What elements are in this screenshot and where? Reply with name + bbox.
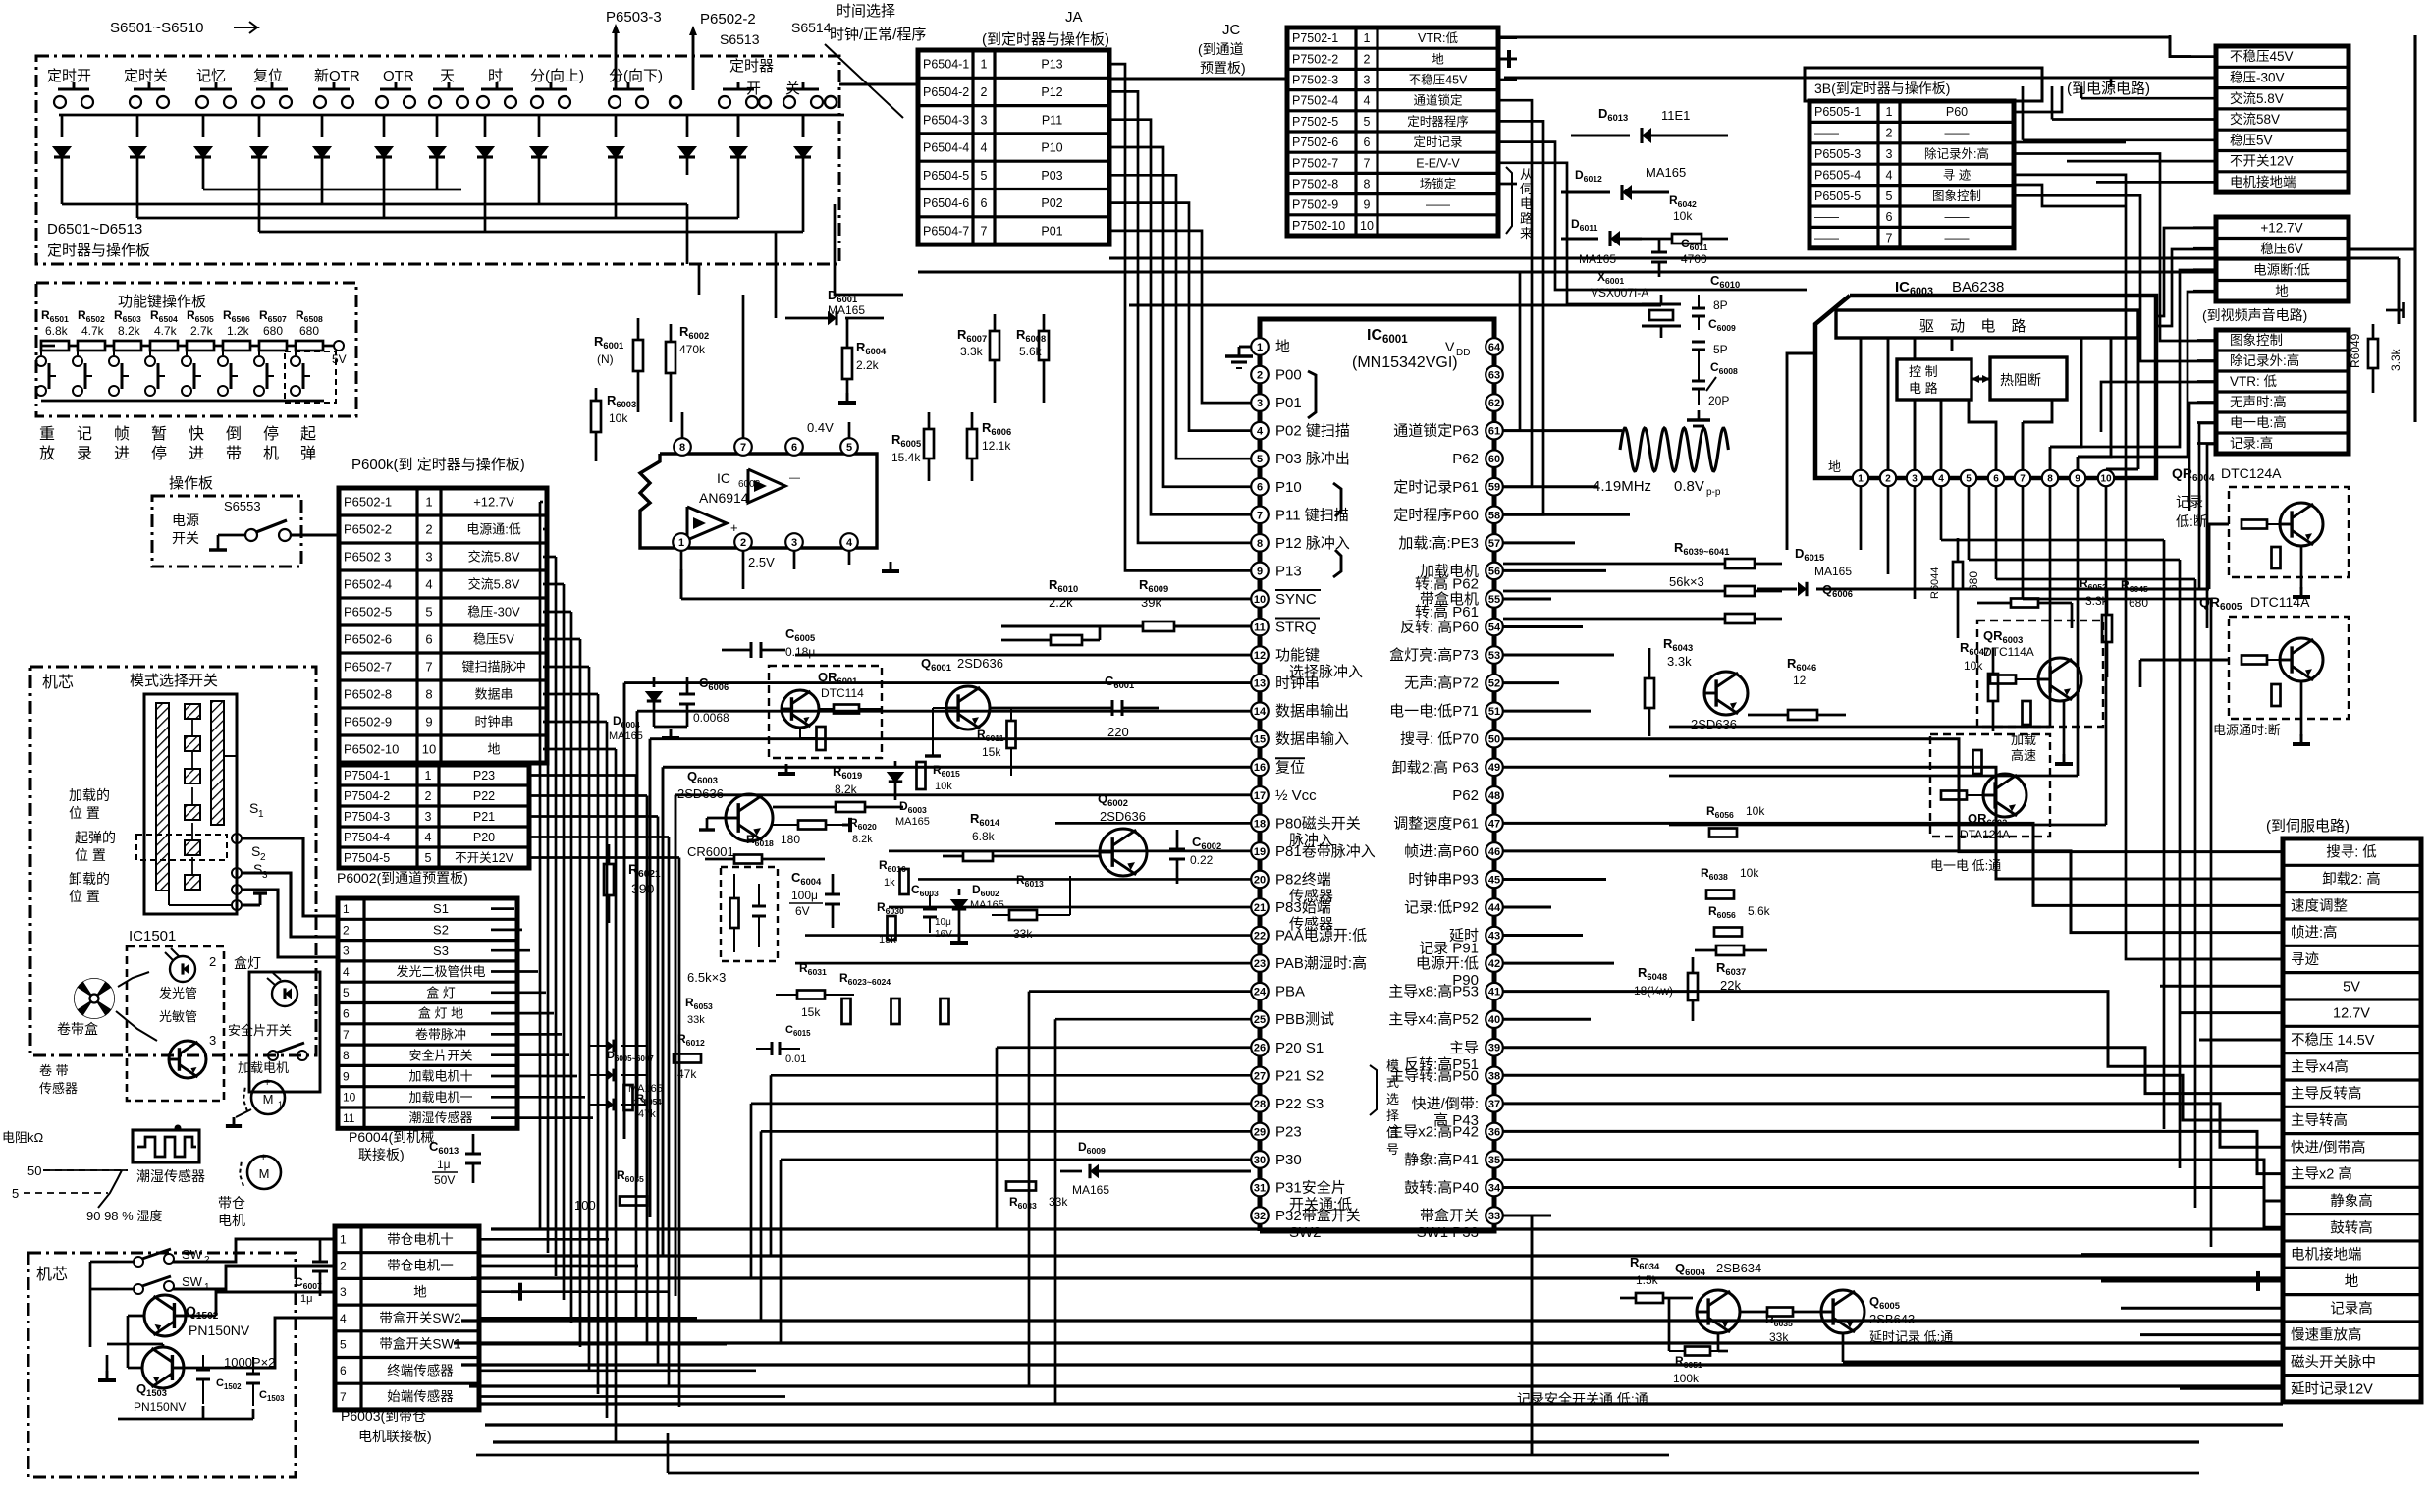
diode D6513 [802, 115, 805, 137]
svg-text:43: 43 [1488, 931, 1500, 943]
svg-text:P6502-5: P6502-5 [344, 605, 392, 620]
svg-text:主导x4:高P52: 主导x4:高P52 [1388, 1011, 1479, 1028]
svg-text:2SD636: 2SD636 [957, 656, 1003, 671]
svg-text:11E1: 11E1 [1661, 108, 1690, 123]
svg-text:39: 39 [1488, 1043, 1500, 1054]
wires right vertical bundle [2163, 854, 2166, 1129]
svg-text:P23: P23 [473, 769, 495, 783]
svg-text:记录 P91: 记录 P91 [1419, 941, 1479, 957]
svg-text:11: 11 [1254, 621, 1266, 633]
svg-text:2.2k: 2.2k [856, 358, 880, 372]
svg-text:电一电:低P71: 电一电:低P71 [1389, 703, 1479, 720]
svg-text:交流58V: 交流58V [2230, 111, 2280, 127]
svg-text:680: 680 [263, 324, 283, 338]
svg-text:220: 220 [1107, 725, 1129, 739]
pin 21 P83始端 [1251, 898, 1269, 916]
svg-text:定时器与操作板: 定时器与操作板 [47, 242, 150, 259]
wire matrix verticals to box bottom [775, 232, 778, 318]
svg-text:1: 1 [425, 495, 432, 510]
svg-text:(到伺服电路): (到伺服电路) [2266, 818, 2350, 835]
svg-text:进: 进 [114, 445, 130, 462]
svg-text:高速: 高速 [2011, 748, 2036, 763]
svg-text:54: 54 [1488, 621, 1501, 633]
svg-text:快进/倒带高: 快进/倒带高 [2291, 1139, 2366, 1156]
svg-text:反转: 高P60: 反转: 高P60 [1400, 620, 1479, 636]
op-amp A [748, 469, 785, 503]
pin 55 带盒电机 [1486, 590, 1503, 608]
svg-text:PAB潮湿时:高: PAB潮湿时:高 [1275, 955, 1367, 972]
svg-text:除记录外:高: 除记录外:高 [2230, 352, 2299, 368]
svg-text:不稳压 14.5V: 不稳压 14.5V [2291, 1032, 2375, 1049]
pin 56 加载电机 [1486, 563, 1503, 580]
svg-text:40: 40 [1488, 1014, 1500, 1026]
svg-text:3.3k: 3.3k [960, 345, 984, 358]
svg-text:记: 记 [77, 425, 92, 443]
svg-text:DTC124A: DTC124A [2221, 465, 2282, 481]
svg-text:5: 5 [12, 1186, 19, 1201]
svg-text:JA: JA [1065, 9, 1083, 26]
svg-text:P7502-7: P7502-7 [1292, 156, 1338, 170]
svg-text:P6004(到机械: P6004(到机械 [349, 1129, 434, 1145]
svg-text:P6505-3: P6505-3 [1814, 147, 1861, 161]
svg-text:放: 放 [39, 445, 55, 462]
connector table P7504 [339, 765, 529, 868]
svg-text:SYNC: SYNC [1275, 591, 1317, 608]
svg-text:DD: DD [1456, 348, 1470, 358]
svg-text:定时器: 定时器 [729, 58, 774, 75]
svg-text:不开关12V: 不开关12V [455, 851, 513, 865]
svg-text:5V: 5V [332, 352, 347, 366]
svg-text:模: 模 [1386, 1058, 1399, 1073]
svg-text:2: 2 [1364, 52, 1371, 66]
svg-text:3.3k: 3.3k [2389, 348, 2403, 371]
svg-text:卷带脉冲: 卷带脉冲 [415, 1027, 466, 1042]
svg-text:交流5.8V: 交流5.8V [468, 577, 520, 592]
svg-text:VTR: 低: VTR: 低 [2230, 374, 2278, 389]
svg-text:1.2k: 1.2k [227, 324, 250, 338]
svg-text:p-p: p-p [1706, 487, 1721, 498]
svg-text:2.2k: 2.2k [1049, 595, 1073, 610]
svg-text:DTA124A: DTA124A [1960, 828, 2010, 841]
svg-text:29: 29 [1254, 1126, 1266, 1138]
svg-text:P20 S1: P20 S1 [1275, 1040, 1324, 1056]
svg-text:7: 7 [1886, 232, 1893, 245]
svg-text:STRQ: STRQ [1275, 620, 1317, 636]
wire top bus under JC [1109, 256, 2399, 259]
svg-text:P7504-3: P7504-3 [344, 810, 390, 824]
svg-text:1: 1 [204, 1282, 210, 1293]
svg-text:3: 3 [1886, 147, 1893, 161]
svg-text:3: 3 [981, 113, 988, 127]
svg-text:4: 4 [425, 577, 432, 592]
svg-text:主导反转高: 主导反转高 [2291, 1086, 2362, 1103]
svg-text:3.3k: 3.3k [1667, 654, 1692, 669]
svg-text:定时开: 定时开 [47, 68, 91, 84]
pin 60 P62 [1486, 450, 1503, 467]
wire above IC top [1129, 304, 1661, 307]
table video audio outputs [2216, 330, 2349, 454]
wire JB row3 to video table [2014, 154, 2216, 342]
svg-text:光敏管: 光敏管 [159, 1009, 197, 1024]
pin 30 P30 [1251, 1151, 1269, 1168]
svg-text:—: — [789, 472, 800, 484]
pin 17 ½ Vcc [1251, 786, 1269, 804]
svg-text:4.7k: 4.7k [81, 324, 105, 338]
wire IC6002 surroundings [848, 422, 851, 438]
svg-text:OTR: OTR [383, 68, 414, 84]
pin 45 时钟串P93 [1486, 871, 1503, 889]
node circles near S6513 [670, 96, 681, 108]
svg-text:P7502-4: P7502-4 [1292, 94, 1338, 108]
wire switch bus [59, 114, 844, 117]
svg-text:机芯: 机芯 [36, 1266, 68, 1283]
svg-text:机芯: 机芯 [42, 674, 74, 691]
svg-text:100: 100 [574, 1198, 596, 1213]
svg-text:P600k(到 定时器与操作板): P600k(到 定时器与操作板) [351, 456, 525, 473]
svg-text:1: 1 [258, 809, 264, 820]
svg-text:P30: P30 [1275, 1152, 1302, 1168]
wire JB header link [2014, 86, 2062, 112]
svg-text:停: 停 [151, 445, 167, 462]
svg-text:2: 2 [425, 789, 432, 803]
svg-text:卸载2:高 P63: 卸载2:高 P63 [1392, 759, 1479, 776]
pin 64 nc [1486, 338, 1503, 355]
svg-text:P6505-1: P6505-1 [1814, 105, 1861, 119]
svg-text:11: 11 [343, 1111, 355, 1125]
pin 5 P03 脉冲出 [1251, 450, 1269, 467]
svg-text:MA165: MA165 [828, 303, 865, 317]
pin 27 P21 S2 [1251, 1067, 1269, 1085]
pin 26 P20 S1 [1251, 1039, 1269, 1056]
svg-text:PN150NV: PN150NV [134, 1400, 186, 1414]
svg-text:择: 择 [1386, 1108, 1399, 1123]
svg-text:3: 3 [1912, 474, 1918, 485]
svg-text:安全片开关: 安全片开关 [228, 1023, 292, 1038]
svg-text:2: 2 [981, 85, 988, 99]
svg-text:P01: P01 [1275, 395, 1302, 411]
svg-text:低:断: 低:断 [2176, 513, 2207, 529]
svg-text:P62: P62 [1452, 451, 1479, 467]
svg-text:P13: P13 [1041, 58, 1062, 72]
svg-text:——: —— [1814, 127, 1840, 140]
svg-text:0.0068: 0.0068 [693, 711, 729, 725]
svg-text:P01: P01 [1041, 224, 1062, 238]
wires IC6003 pins down [1860, 487, 1863, 550]
svg-text:4.7k: 4.7k [154, 324, 178, 338]
svg-text:电机接地端: 电机接地端 [2291, 1247, 2362, 1264]
svg-text:电 路: 电 路 [1909, 381, 1938, 396]
mechanism box 机芯 upper [30, 667, 316, 1055]
svg-text:S: S [251, 843, 260, 859]
svg-text:4: 4 [846, 537, 853, 549]
svg-text:P21: P21 [473, 810, 495, 824]
svg-text:稳压6V: 稳压6V [2260, 242, 2303, 256]
svg-text:——: —— [1814, 232, 1840, 245]
diode D6002 MA165 [958, 889, 961, 895]
wire mid horizontal bus pins 13-17 [624, 681, 1251, 684]
connector table P6505 JB [1810, 101, 2014, 248]
pin 36 主导x2:高P42 [1486, 1123, 1503, 1141]
svg-text:——: —— [1945, 232, 1971, 245]
svg-text:100k: 100k [1673, 1372, 1700, 1385]
pin 42 电源开:低 [1486, 954, 1503, 972]
IC U6001 MN15342VG1 body [1260, 319, 1494, 1231]
svg-text:0.22: 0.22 [1190, 853, 1214, 867]
svg-text:59: 59 [1488, 482, 1500, 494]
pin 2 P00 [1251, 366, 1269, 384]
svg-text:IC: IC [717, 470, 730, 486]
svg-text:P22: P22 [473, 789, 495, 803]
svg-text:61: 61 [1488, 426, 1500, 438]
svg-text:7: 7 [2020, 474, 2026, 485]
svg-text:帧进:高: 帧进:高 [2291, 925, 2338, 942]
svg-text:时钟/正常/程序: 时钟/正常/程序 [830, 27, 926, 43]
svg-text:重: 重 [39, 425, 55, 443]
svg-text:卷带盒: 卷带盒 [57, 1021, 98, 1037]
svg-text:暂: 暂 [151, 425, 167, 443]
wires servo table remaining rows [2140, 957, 2283, 960]
svg-text:P21 S2: P21 S2 [1275, 1067, 1324, 1084]
svg-text:选: 选 [1386, 1092, 1399, 1107]
svg-text:6.8k: 6.8k [972, 830, 996, 843]
svg-text:26: 26 [1254, 1043, 1266, 1054]
svg-text:4: 4 [425, 831, 432, 844]
pin 59 定时记录P61 [1486, 478, 1503, 496]
diode D6509 [538, 115, 541, 137]
svg-text:23: 23 [1254, 958, 1266, 970]
capacitor C1503 [246, 1373, 260, 1376]
svg-text:28: 28 [1254, 1099, 1266, 1110]
pin 40 主导x4:高P52 [1486, 1010, 1503, 1028]
svg-text:R6044: R6044 [1929, 567, 1941, 599]
pin 44 记录:低P92 [1486, 898, 1503, 916]
svg-text:P7502-3: P7502-3 [1292, 74, 1338, 87]
svg-text:P7502-8: P7502-8 [1292, 178, 1338, 191]
svg-text:3: 3 [791, 537, 797, 549]
svg-text:4: 4 [1364, 94, 1371, 108]
diode D6510 [615, 115, 618, 137]
svg-text:慢速重放高: 慢速重放高 [2291, 1327, 2362, 1344]
svg-text:+12.7V: +12.7V [2260, 220, 2302, 235]
svg-text:10: 10 [422, 742, 436, 757]
diode D6504 [258, 115, 261, 137]
wires P7504 rows to bus [530, 774, 636, 777]
motor M1 加载电机 [251, 1081, 285, 1114]
wire bottom long line [668, 1472, 2199, 1475]
capacitor C6002 0.22 [1169, 848, 1185, 851]
svg-text:记录:低P92: 记录:低P92 [1404, 899, 1479, 916]
diode D6503 [202, 115, 205, 137]
svg-text:MA165: MA165 [895, 816, 930, 828]
wire top frame stub right of JC [1498, 58, 1517, 61]
ground QR6001 [785, 764, 788, 774]
pin 22 PAA电源开:低 [1251, 927, 1269, 945]
svg-text:速度调整: 速度调整 [2291, 897, 2348, 914]
table +12.7V group [2216, 217, 2349, 301]
svg-text:倒: 倒 [226, 425, 242, 443]
svg-text:50V: 50V [434, 1173, 455, 1187]
svg-text:5: 5 [1257, 454, 1263, 465]
svg-text:D6501~D6513: D6501~D6513 [47, 221, 142, 238]
svg-text:(到通道: (到通道 [1198, 41, 1244, 57]
svg-text:5: 5 [846, 442, 852, 454]
svg-text:9: 9 [1364, 198, 1371, 212]
svg-text:P81卷带脉冲入: P81卷带脉冲入 [1275, 843, 1376, 860]
pin 3 P01 [1251, 394, 1269, 411]
svg-text:转:高 P62: 转:高 P62 [1415, 575, 1479, 592]
svg-text:V: V [1445, 339, 1455, 354]
svg-text:22: 22 [1254, 931, 1266, 943]
svg-text:48: 48 [1488, 790, 1500, 802]
svg-text:式: 式 [1386, 1075, 1399, 1090]
svg-text:主导x8:高P53: 主导x8:高P53 [1388, 984, 1479, 1000]
svg-text:4: 4 [343, 965, 350, 979]
svg-text:地: 地 [1828, 459, 1841, 474]
svg-text:潮湿传感器: 潮湿传感器 [408, 1110, 472, 1125]
connector table P7502 JC [1287, 27, 1498, 236]
svg-text:4: 4 [1257, 426, 1264, 438]
svg-text:电机联接板): 电机联接板) [358, 1429, 432, 1444]
svg-text:P62: P62 [1452, 787, 1479, 804]
svg-text:帧: 帧 [114, 425, 130, 443]
wire pin 33 to bottom bus [1503, 1215, 1532, 1455]
pin 62 nc [1486, 394, 1503, 411]
svg-text:P6502-9: P6502-9 [344, 715, 392, 729]
svg-text:不稳压45V: 不稳压45V [1409, 73, 1468, 87]
svg-text:8: 8 [2047, 474, 2053, 485]
wire JB row5 to video table [2014, 195, 2216, 361]
svg-text:21: 21 [1254, 902, 1266, 914]
svg-text:6: 6 [1257, 482, 1263, 494]
svg-text:6: 6 [1886, 210, 1893, 224]
svg-text:发光二极管供电: 发光二极管供电 [396, 964, 485, 979]
svg-text:快: 快 [189, 425, 204, 443]
pin 43 延时 [1486, 927, 1503, 945]
switch function key 4 [149, 346, 151, 355]
svg-text:8.2k: 8.2k [118, 324, 141, 338]
svg-text:35: 35 [1488, 1155, 1500, 1166]
svg-text:½ Vcc: ½ Vcc [1275, 787, 1317, 804]
svg-text:20P: 20P [1708, 394, 1729, 407]
ground mode switch [259, 893, 262, 905]
svg-text:带盒开关: 带盒开关 [1420, 1208, 1479, 1224]
pin 15 数据串输入 [1251, 730, 1269, 748]
svg-text:8P: 8P [1713, 298, 1728, 312]
svg-text:时: 时 [488, 68, 503, 84]
svg-text:VTR:低: VTR:低 [1418, 31, 1458, 45]
svg-text:P6502 3: P6502 3 [344, 550, 391, 565]
mechanism box 机芯 lower [28, 1253, 296, 1477]
wire JC to power table [1498, 37, 2191, 57]
svg-text:6.5k×3: 6.5k×3 [687, 970, 726, 985]
svg-text:3: 3 [425, 550, 432, 565]
wire diode matrix [61, 175, 64, 204]
svg-text:45: 45 [1488, 874, 1500, 886]
svg-text:5P: 5P [1713, 343, 1728, 356]
svg-text:P83始端: P83始端 [1275, 899, 1331, 916]
svg-text:PAA电源开:低: PAA电源开:低 [1275, 928, 1367, 945]
svg-text:0.01: 0.01 [785, 1053, 806, 1065]
diode D6501 [61, 115, 64, 137]
LED sensor lamp [170, 956, 195, 982]
svg-text:时钟串: 时钟串 [474, 715, 513, 729]
diode D6003 MA165 [894, 761, 897, 768]
svg-text:P6504-6: P6504-6 [923, 196, 969, 210]
svg-text:无声时:高: 无声时:高 [2230, 394, 2287, 409]
svg-text:2: 2 [425, 522, 432, 537]
svg-text:通道锁定: 通道锁定 [1413, 93, 1462, 108]
svg-text:P7502-5: P7502-5 [1292, 115, 1338, 129]
svg-text:稳压5V: 稳压5V [2230, 133, 2273, 147]
ground R6004 [846, 393, 849, 403]
diode D6512 [737, 115, 740, 137]
svg-text:记忆: 记忆 [196, 68, 226, 84]
svg-text:电一电:高: 电一电:高 [2230, 414, 2287, 430]
svg-text:7: 7 [340, 1390, 347, 1404]
svg-text:2.7k: 2.7k [190, 324, 214, 338]
svg-text:静象高: 静象高 [2330, 1193, 2373, 1210]
svg-text:加载:高:PE3: 加载:高:PE3 [1398, 535, 1479, 552]
svg-text:寻 迹: 寻 迹 [1943, 168, 1972, 182]
svg-text:稳压-30V: 稳压-30V [2230, 71, 2285, 85]
svg-text:58: 58 [1488, 510, 1500, 521]
svg-text:13: 13 [1254, 678, 1266, 690]
pin 20 P82终端 [1251, 871, 1269, 889]
svg-text:2: 2 [1257, 370, 1263, 382]
op-amp B [687, 507, 727, 540]
svg-text:地: 地 [2275, 284, 2289, 298]
svg-text:联接板): 联接板) [358, 1147, 405, 1162]
wires IC6003 to +12.7V table [2156, 228, 2216, 316]
svg-text:2: 2 [209, 954, 216, 969]
svg-text:6: 6 [1993, 474, 1999, 485]
svg-text:SW2: SW2 [1289, 1224, 1322, 1241]
svg-text:帧进:高P60: 帧进:高P60 [1404, 843, 1479, 860]
svg-text:56k×3: 56k×3 [1669, 574, 1704, 589]
svg-text:15: 15 [1254, 734, 1266, 746]
pins IC6002 top [674, 438, 691, 456]
svg-text:P03 脉冲出: P03 脉冲出 [1275, 451, 1350, 467]
resistor R6020 8.2k [798, 821, 826, 830]
svg-text:P23: P23 [1275, 1123, 1302, 1140]
svg-text:8: 8 [343, 1049, 350, 1062]
svg-text:P6505-5: P6505-5 [1814, 189, 1861, 203]
svg-text:P12: P12 [1041, 85, 1062, 99]
svg-text:起弹的: 起弹的 [75, 830, 116, 845]
svg-text:搜寻: 低: 搜寻: 低 [2326, 844, 2377, 861]
svg-text:驱 动 电 路: 驱 动 电 路 [1919, 318, 2032, 335]
svg-text:热阻断: 热阻断 [2000, 372, 2041, 388]
svg-text:P6502-1: P6502-1 [344, 495, 392, 510]
svg-text:电源通:低: 电源通:低 [466, 522, 521, 537]
svg-text:1: 1 [678, 537, 684, 549]
svg-text:鼓转高: 鼓转高 [2330, 1219, 2373, 1236]
svg-text:操作板: 操作板 [169, 474, 213, 492]
svg-text:2: 2 [740, 537, 746, 549]
wires IC right pins to servo table staircase [1503, 429, 1622, 432]
connector table P6004 [338, 898, 517, 1128]
svg-text:盒 灯: 盒 灯 [426, 985, 456, 999]
svg-text:12.7V: 12.7V [2333, 1006, 2370, 1022]
svg-text:起: 起 [300, 425, 316, 443]
resistor R6054 47k [624, 1085, 633, 1110]
svg-text:27: 27 [1254, 1070, 1266, 1082]
svg-text:快进/倒带:: 快进/倒带: [1412, 1096, 1479, 1112]
svg-text:1: 1 [1257, 342, 1263, 353]
svg-text:24: 24 [1254, 987, 1267, 999]
transistor QR6001 DTC114 dashed box [769, 666, 882, 758]
svg-text:P00: P00 [1275, 367, 1302, 384]
